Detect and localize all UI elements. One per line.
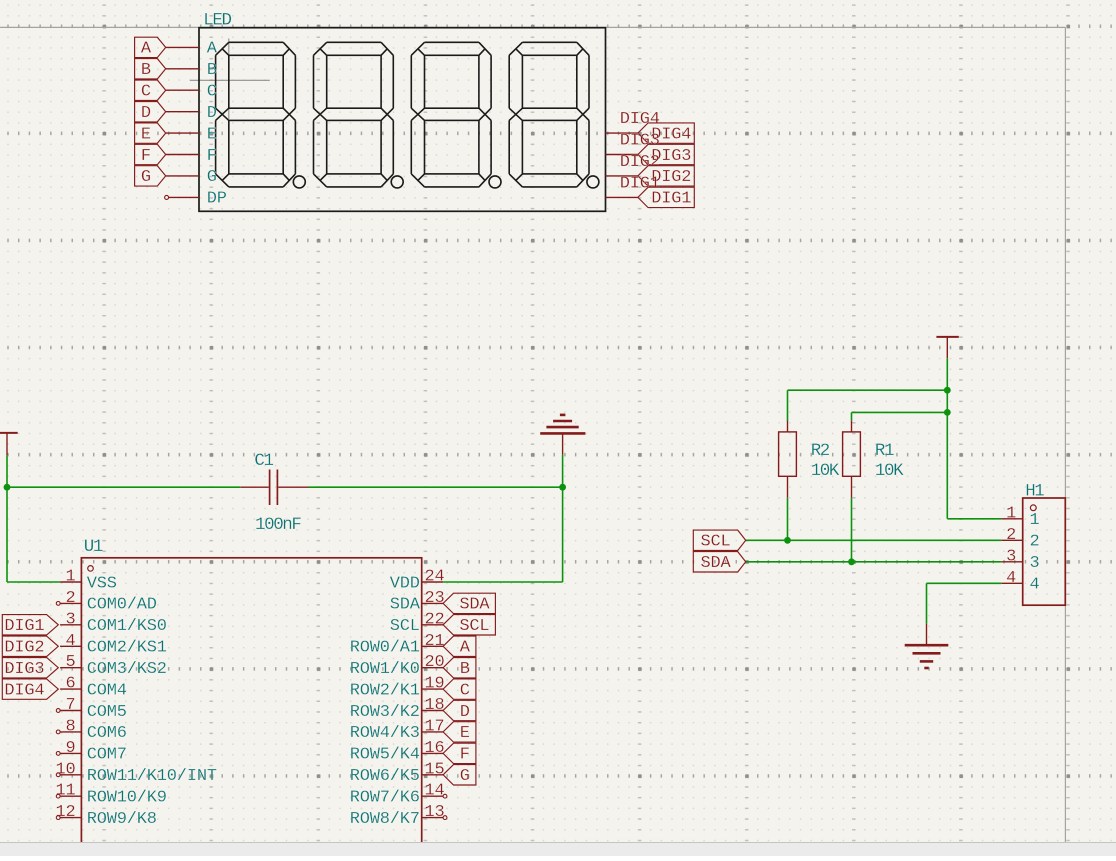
svg-text:2: 2 xyxy=(1030,533,1040,552)
7-segment digit 4 xyxy=(509,42,599,188)
wire R1 bottom to SDA xyxy=(851,498,853,562)
LED pin DP (unconnected) xyxy=(165,190,227,209)
svg-text:ROW8/K7: ROW8/K7 xyxy=(350,810,420,829)
U1 pin 24 VDD xyxy=(390,568,445,594)
svg-text:E: E xyxy=(207,125,217,144)
U1 pin 9 COM7 xyxy=(56,739,127,765)
svg-text:20: 20 xyxy=(425,653,445,672)
U1 pin1 indicator circle xyxy=(88,566,94,572)
global label SDA at U1 pin 23 xyxy=(443,593,495,615)
svg-text:23: 23 xyxy=(425,589,445,608)
U1 pin 12 ROW9/K8 xyxy=(55,803,156,829)
junction second xyxy=(944,409,951,416)
svg-text:E: E xyxy=(460,724,470,743)
svg-text:G: G xyxy=(460,767,470,786)
svg-text:5: 5 xyxy=(65,653,75,672)
svg-text:8: 8 xyxy=(65,717,75,736)
junction SCL xyxy=(784,537,791,544)
svg-text:1: 1 xyxy=(1030,511,1040,530)
svg-text:ROW10/K9: ROW10/K9 xyxy=(87,789,167,808)
junction gnd xyxy=(559,484,566,491)
wire vertical to H1 pin1 xyxy=(946,390,948,519)
svg-text:7: 7 xyxy=(65,696,75,715)
global label DIG4 xyxy=(638,123,694,144)
svg-text:R1: R1 xyxy=(875,441,894,461)
svg-text:ROW7/K6: ROW7/K6 xyxy=(350,789,420,808)
LED pin E xyxy=(166,125,217,144)
connector H1 box xyxy=(1023,498,1066,605)
svg-text:COM1/KS0: COM1/KS0 xyxy=(87,617,167,636)
svg-text:COM3/KS2: COM3/KS2 xyxy=(87,660,167,679)
wire power to junction xyxy=(946,358,948,390)
svg-text:SCL: SCL xyxy=(700,533,730,552)
ground symbol (inverted, above wire) xyxy=(540,415,585,455)
svg-text:6: 6 xyxy=(65,675,75,694)
global label F xyxy=(135,144,166,166)
svg-text:ROW0/A1: ROW0/A1 xyxy=(350,639,420,658)
svg-text:A: A xyxy=(141,40,152,59)
svg-text:C: C xyxy=(460,681,470,700)
svg-text:U1: U1 xyxy=(84,537,103,557)
svg-text:3: 3 xyxy=(1030,554,1040,573)
svg-text:C1: C1 xyxy=(254,451,273,471)
U1 pin 21 ROW0/A1 xyxy=(350,632,445,658)
svg-text:F: F xyxy=(141,147,151,166)
svg-text:VSS: VSS xyxy=(87,574,117,593)
LED pin A xyxy=(166,40,218,59)
U1 pin 10 ROW11/K10/INT xyxy=(55,760,216,786)
svg-text:R2: R2 xyxy=(811,441,830,461)
svg-text:COM4: COM4 xyxy=(87,681,127,700)
svg-text:21: 21 xyxy=(425,632,445,651)
resistor R2 xyxy=(779,421,797,498)
svg-text:SDA: SDA xyxy=(700,554,731,573)
7-segment digit 2 xyxy=(314,42,404,188)
svg-text:COM0/AD: COM0/AD xyxy=(87,596,157,615)
svg-text:B: B xyxy=(460,660,470,679)
wire down to VSS pin1 xyxy=(6,487,8,582)
svg-text:F: F xyxy=(207,147,217,166)
svg-text:4: 4 xyxy=(1006,569,1016,588)
LED pin DIG2 xyxy=(606,175,638,177)
svg-text:VDD: VDD xyxy=(390,574,420,593)
svg-text:ROW2/K1: ROW2/K1 xyxy=(350,681,420,700)
power symbol (bar) top right xyxy=(936,337,958,358)
U1 pin 14 ROW7/K6 xyxy=(350,782,447,808)
svg-text:COM6: COM6 xyxy=(87,724,127,743)
U1 pin 3 COM1/KS0 xyxy=(60,610,167,636)
svg-text:13: 13 xyxy=(425,803,445,822)
global label F at U1 pin 16 xyxy=(443,743,476,765)
wire R1 top rail xyxy=(852,411,948,413)
LED pin DIG1 xyxy=(606,196,638,198)
svg-text:DP: DP xyxy=(207,190,227,209)
svg-text:4: 4 xyxy=(1030,576,1040,595)
wire H1 pin4 to gnd xyxy=(927,582,1002,584)
wire SDA xyxy=(746,561,1002,563)
svg-text:24: 24 xyxy=(425,568,445,587)
svg-text:10K: 10K xyxy=(875,461,904,481)
U1 pin 7 COM5 xyxy=(56,696,127,722)
svg-text:3: 3 xyxy=(1006,547,1016,566)
svg-text:D: D xyxy=(141,104,151,123)
LED pin F xyxy=(166,147,217,166)
wire C1 to GND junction xyxy=(309,486,563,488)
junction SDA xyxy=(848,558,855,565)
svg-text:10K: 10K xyxy=(811,461,840,481)
LED pin DIG3 xyxy=(606,154,638,156)
wire down to VDD pin24 xyxy=(562,487,564,582)
cursor crosshair xyxy=(190,39,270,119)
svg-text:ROW3/K2: ROW3/K2 xyxy=(350,703,420,722)
global label E xyxy=(135,123,166,144)
global label DIG4 at U1 pin 6 xyxy=(2,679,58,701)
svg-text:H1: H1 xyxy=(1025,482,1044,502)
global label DIG1 xyxy=(638,187,694,209)
svg-text:DIG1: DIG1 xyxy=(4,617,44,636)
svg-text:2: 2 xyxy=(65,589,75,608)
global label C xyxy=(135,80,166,102)
U1 pin 15 ROW6/K5 xyxy=(350,760,445,786)
LED pin G xyxy=(166,168,217,187)
svg-text:DIG1: DIG1 xyxy=(651,190,691,209)
U1 pin 2 COM0/AD xyxy=(56,589,157,615)
capacitor C1 xyxy=(240,470,308,506)
global label A xyxy=(135,37,166,59)
svg-text:DIG4: DIG4 xyxy=(4,681,44,700)
wire horizontal left to C1 xyxy=(7,486,240,488)
svg-text:D: D xyxy=(207,104,217,123)
svg-text:19: 19 xyxy=(425,675,445,694)
junction left rail xyxy=(4,484,11,491)
global label G at U1 pin 15 xyxy=(443,765,476,787)
global label G xyxy=(135,166,166,188)
global label A at U1 pin 21 xyxy=(443,636,476,658)
U1 pin 11 ROW10/K9 xyxy=(55,782,166,808)
svg-text:G: G xyxy=(141,168,151,187)
H1 pin 4 xyxy=(1001,569,1039,595)
svg-text:DIG2: DIG2 xyxy=(4,639,44,658)
H1 pin 2 xyxy=(1001,526,1039,552)
U1 pin 5 COM3/KS2 xyxy=(60,653,167,679)
global label SCL at U1 pin 22 xyxy=(443,615,495,637)
global label SDA xyxy=(693,552,745,574)
svg-text:15: 15 xyxy=(425,760,445,779)
7-segment digit 3 xyxy=(411,42,501,188)
svg-text:18: 18 xyxy=(425,696,445,715)
H1 pin1 indicator circle xyxy=(1030,505,1036,511)
wire VSS rail left vertical xyxy=(6,455,8,487)
global label DIG3 xyxy=(638,144,694,166)
U1 pin 6 COM4 xyxy=(60,675,127,701)
U1 pin 22 SCL xyxy=(390,610,445,636)
U1 pin 19 ROW2/K1 xyxy=(350,675,445,701)
svg-text:COM5: COM5 xyxy=(87,703,127,722)
svg-text:14: 14 xyxy=(425,782,445,801)
svg-text:ROW6/K5: ROW6/K5 xyxy=(350,767,420,786)
H1 pin 3 xyxy=(1001,547,1039,573)
svg-text:A: A xyxy=(207,40,218,59)
power symbol (bar) left xyxy=(0,433,18,455)
global label DIG3 at U1 pin 5 xyxy=(2,658,58,680)
global label DIG2 at U1 pin 4 xyxy=(2,636,58,658)
U1 pin 17 ROW4/K3 xyxy=(350,717,445,743)
svg-text:DIG3: DIG3 xyxy=(4,660,44,679)
svg-text:SCL: SCL xyxy=(459,617,489,636)
svg-text:B: B xyxy=(141,61,151,80)
svg-text:LED: LED xyxy=(203,10,231,30)
svg-text:G: G xyxy=(207,168,217,187)
svg-text:100nF: 100nF xyxy=(255,515,301,535)
U1 pin 18 ROW3/K2 xyxy=(350,696,445,722)
svg-text:F: F xyxy=(460,746,470,765)
LED pin D xyxy=(166,104,217,123)
global label B xyxy=(135,59,166,81)
U1 pin 23 SDA xyxy=(390,589,445,615)
global label D xyxy=(135,102,166,124)
7-segment digit 1 xyxy=(216,42,306,188)
svg-text:E: E xyxy=(141,125,151,144)
U1 pin 4 COM2/KS1 xyxy=(60,632,167,658)
svg-text:ROW5/K4: ROW5/K4 xyxy=(350,746,420,765)
global label B at U1 pin 20 xyxy=(443,658,476,680)
svg-text:D: D xyxy=(460,703,470,722)
svg-text:9: 9 xyxy=(65,739,75,758)
ground symbol bottom right xyxy=(905,624,949,668)
svg-text:COM7: COM7 xyxy=(87,746,127,765)
U1 pin 16 ROW5/K4 xyxy=(350,739,445,765)
svg-text:4: 4 xyxy=(65,632,75,651)
svg-text:COM2/KS1: COM2/KS1 xyxy=(87,639,167,658)
svg-text:SDA: SDA xyxy=(459,596,490,615)
svg-text:SDA: SDA xyxy=(390,596,421,615)
svg-text:1: 1 xyxy=(65,568,75,587)
bottom scrollbar strip xyxy=(0,843,1116,857)
svg-text:17: 17 xyxy=(425,717,445,736)
wire R2 top drop xyxy=(787,390,789,421)
global label DIG2 xyxy=(638,166,694,188)
wire SCL xyxy=(746,539,1002,541)
wire R2 bottom to SCL xyxy=(787,498,789,541)
wire gnd stub down xyxy=(562,455,564,487)
svg-text:16: 16 xyxy=(425,739,445,758)
LED pin DIG4 xyxy=(606,132,638,134)
U1 pin 13 ROW8/K7 xyxy=(350,803,447,829)
wire R2 top rail xyxy=(788,389,948,391)
IC U1 box xyxy=(81,558,421,845)
svg-text:22: 22 xyxy=(425,610,445,629)
svg-text:ROW9/K8: ROW9/K8 xyxy=(87,810,157,829)
U1 pin 1 VSS xyxy=(60,568,117,594)
svg-text:2: 2 xyxy=(1006,526,1016,545)
LED pin C xyxy=(166,83,217,102)
svg-text:3: 3 xyxy=(65,610,75,629)
global label D at U1 pin 18 xyxy=(443,700,476,722)
resistor R1 xyxy=(843,421,861,498)
svg-text:A: A xyxy=(460,639,471,658)
svg-text:ROW1/K0: ROW1/K0 xyxy=(350,660,420,679)
svg-text:ROW4/K3: ROW4/K3 xyxy=(350,724,420,743)
LED 4-digit 7-segment display box xyxy=(199,28,606,212)
svg-text:SCL: SCL xyxy=(390,617,420,636)
junction top xyxy=(944,387,951,394)
U1 pin 20 ROW1/K0 xyxy=(350,653,445,679)
svg-text:C: C xyxy=(141,83,151,102)
U1 pin 8 COM6 xyxy=(56,717,127,743)
H1 pin 1 xyxy=(1001,504,1039,530)
global label C at U1 pin 19 xyxy=(443,679,476,701)
svg-text:B: B xyxy=(207,61,217,80)
svg-text:C: C xyxy=(207,83,217,102)
global label E at U1 pin 17 xyxy=(443,722,476,744)
LED pin B xyxy=(166,61,217,80)
global label SCL xyxy=(693,530,745,552)
global label DIG1 at U1 pin 3 xyxy=(2,615,58,637)
svg-text:1: 1 xyxy=(1006,504,1016,523)
svg-text:ROW11/K10/INT: ROW11/K10/INT xyxy=(87,767,217,786)
